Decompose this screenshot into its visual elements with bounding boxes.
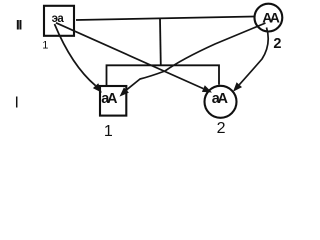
svg-text:AA: AA bbox=[262, 9, 280, 25]
svg-text:2: 2 bbox=[217, 120, 226, 137]
svg-text:II: II bbox=[16, 17, 22, 33]
svg-text:2: 2 bbox=[273, 36, 281, 52]
svg-text:1: 1 bbox=[42, 39, 48, 51]
svg-text:I: I bbox=[15, 94, 19, 111]
svg-text:1: 1 bbox=[104, 123, 113, 139]
svg-text:эа: эа bbox=[52, 13, 65, 25]
